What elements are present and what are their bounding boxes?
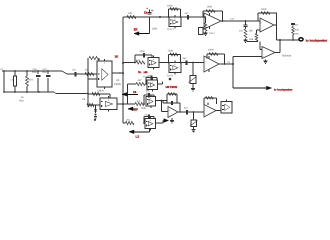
svg-text:to loudspeaker: to loudspeaker (306, 38, 328, 42)
svg-text:A: A (174, 63, 176, 66)
svg-text:100K: 100K (152, 28, 158, 31)
svg-text:to loudspeaker: to loudspeaker (274, 88, 292, 91)
svg-text:−: − (263, 51, 265, 53)
svg-text:C12: C12 (230, 17, 235, 20)
svg-text:4µ7: 4µ7 (184, 107, 188, 110)
svg-text:U6: U6 (101, 90, 105, 93)
svg-text:A: A (150, 119, 152, 122)
svg-text:A: A (153, 58, 155, 61)
svg-text:−: − (261, 29, 263, 31)
svg-text:4n7: 4n7 (185, 12, 190, 15)
svg-text:A: A (108, 99, 110, 102)
svg-text:TL071: TL071 (167, 28, 174, 31)
svg-text:220n: 220n (32, 71, 38, 74)
svg-text:+: + (147, 7, 149, 10)
svg-text:x50: x50 (144, 71, 149, 74)
svg-text:4K7: 4K7 (138, 79, 143, 82)
svg-text:+: + (205, 108, 207, 111)
svg-text:C6: C6 (73, 69, 77, 72)
svg-text:R26: R26 (295, 29, 300, 32)
svg-text:10K: 10K (295, 33, 299, 36)
svg-text:TL071: TL071 (167, 75, 174, 78)
svg-text:x1: x1 (134, 108, 138, 112)
svg-text:+: + (205, 17, 207, 20)
svg-text:A: A (174, 18, 176, 21)
svg-text:1n5: 1n5 (239, 30, 244, 33)
svg-text:1L: 1L (138, 70, 142, 74)
svg-text:C8: C8 (82, 98, 86, 101)
svg-text:2K2: 2K2 (127, 118, 132, 121)
svg-text:R23: R23 (29, 79, 34, 82)
svg-text:15K: 15K (249, 30, 254, 33)
svg-text:+: + (205, 60, 207, 63)
svg-text:P20N: P20N (114, 83, 121, 86)
svg-text:A: A (104, 62, 106, 65)
svg-text:TDA2030: TDA2030 (282, 55, 292, 58)
svg-text:13: 13 (133, 90, 137, 94)
svg-text:100K: 100K (167, 5, 173, 8)
svg-text:A: A (152, 81, 154, 84)
svg-text:1K: 1K (134, 28, 139, 32)
svg-text:100K: 100K (168, 50, 174, 53)
svg-text:1K8: 1K8 (249, 38, 254, 41)
svg-text:L2: L2 (136, 134, 140, 138)
svg-text:3K3: 3K3 (137, 100, 142, 103)
svg-text:A: A (150, 97, 152, 100)
svg-text:220n: 220n (140, 50, 146, 53)
svg-text:100K: 100K (207, 6, 213, 9)
svg-text:4µ7: 4µ7 (183, 57, 188, 60)
svg-text:100K: 100K (208, 49, 214, 52)
svg-text:4n7: 4n7 (295, 23, 299, 26)
svg-text:+: + (261, 22, 263, 25)
svg-text:a: a (152, 9, 154, 12)
svg-text:U5: U5 (116, 79, 120, 82)
svg-text:+: + (169, 109, 171, 112)
svg-text:2x: 2x (144, 10, 148, 14)
svg-text:220n: 220n (42, 71, 48, 74)
svg-text:TL071: TL071 (209, 32, 216, 35)
svg-text:100K: 100K (261, 8, 267, 11)
svg-text:J6: J6 (21, 96, 24, 99)
svg-text:R22: R22 (20, 100, 25, 103)
svg-text:100K: 100K (141, 107, 147, 110)
svg-text:10K: 10K (128, 12, 133, 15)
svg-text:1K: 1K (115, 55, 120, 59)
svg-text:U5 P20N: U5 P20N (166, 85, 177, 89)
